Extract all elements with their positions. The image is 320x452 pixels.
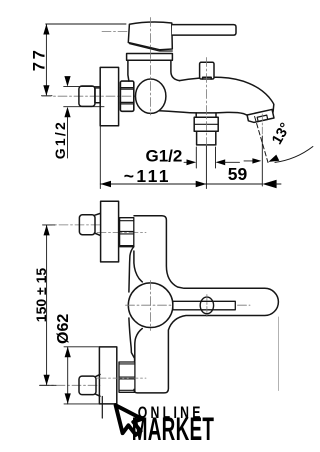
node top axis tick [43,224,56,226]
eccentric top connector [79,215,95,235]
shower outlet nut [194,117,218,131]
aerator assembly [247,109,274,123]
dimension line ~111 [100,183,206,185]
wire eccentric bottom extension [64,106,104,108]
node nut top facets [120,221,134,246]
node neck upper inner [134,251,142,282]
spout bottom edge left [155,111,196,113]
wire flange drop line [101,397,103,419]
lever stem front [173,301,235,310]
node neck lower outline [129,318,135,362]
dimension G1/2 leader arrow left [184,161,189,163]
svg-text:59: 59 [228,164,248,184]
dimension dia62 line [67,347,69,404]
svg-text:G1/2: G1/2 [52,120,68,159]
svg-text:G1/2: G1/2 [146,147,183,166]
wall flange top [101,201,119,262]
spout top edge [180,77,274,104]
wire G1/2 leader [67,117,69,158]
hex nut top [120,218,134,247]
node stem screw ellipse [200,297,213,314]
wire lever axis centerline [102,31,127,33]
wire bottom axis centerline [40,384,100,386]
wire body axis bottom [97,377,146,379]
dimension 150 up arrow [44,225,50,236]
node ecc bottom 3d edge [96,374,100,396]
wall flange [100,67,118,125]
svg-text:Ø62: Ø62 [55,314,72,344]
wire thread extension left [195,147,197,168]
wire aerator centerline [261,114,263,136]
node cap lip line [130,44,173,51]
dimension G1/2 up arrow [64,107,70,118]
wire cap centerline [149,18,151,116]
node cap collar [127,54,173,61]
cone step [95,88,100,103]
svg-text:13°: 13° [269,120,294,147]
eccentric connector left [79,86,95,106]
node nut facets [120,88,133,104]
wire aerator extension [261,136,263,186]
dimension line 59 [206,183,262,185]
shower outlet collar [196,113,216,117]
node ecc 3d edge [94,213,100,235]
hex nut bottom [119,362,135,392]
wire lever-top extension line [46,23,126,25]
cartridge cap [128,22,172,50]
dimension 77 up arrow [43,24,49,35]
cartridge circle dia62 [128,283,173,328]
dimension 77 down arrow [43,85,49,96]
wire body axis top [97,232,146,234]
node axis tick [42,95,53,97]
sphere body [136,79,166,113]
faucet body outline [128,60,180,81]
dimension dia62 down arrow [65,393,71,404]
dimension 13deg left arrow [244,160,253,162]
node knob base [203,77,212,79]
wire eccentric top extension [64,86,100,88]
wire screw centerline [206,295,208,317]
wire top axis centerline [43,224,100,226]
wire wall reference line [278,317,280,391]
wire main axis centerline [42,95,166,97]
dimension G1/2 arrow right [216,159,226,165]
dimension dia62 up arrow [65,347,71,358]
faucet body front [134,216,278,393]
wire flange top extension [64,346,99,348]
dimension 13deg right arrow [267,154,279,163]
node neck lower inner [135,329,143,362]
hex nut [120,81,133,111]
spout end face [272,104,274,116]
svg-text:77: 77 [31,47,49,71]
wire flange bottom extension [64,403,99,405]
spout bottom edge right [216,112,249,116]
wire thread extension right [215,147,217,168]
dimension 150 leader line [46,225,48,385]
dimension 77 leader line [45,24,47,96]
diverter knob [200,62,214,79]
node nut bottom facets [119,364,135,390]
dimension G1/2 down arrow [64,76,70,87]
svg-text:~111: ~111 [124,166,171,186]
wire circle crosshair horizontal [126,304,251,306]
wire circle crosshair vertical [150,281,152,331]
eccentric bottom connector [79,376,96,395]
lever handle bar [172,25,236,35]
wire 13deg arc [275,147,313,163]
shower outlet thread [197,131,216,145]
wire flange extension line [99,126,101,189]
svg-text:150 ± 15: 150 ± 15 [33,268,49,323]
wire 13deg dashed flow line [255,117,268,163]
node outlet nut midline [194,123,218,125]
logo cursor [116,400,146,438]
svg-text:MARKET: MARKET [132,411,215,448]
node neck upper outline [129,247,134,292]
wall flange bottom [99,347,116,404]
wire knob-outlet centerline [205,58,207,147]
dimension 150 down arrow [44,375,50,386]
wire outlet center extension [205,146,207,189]
node bottom axis tick [40,384,57,386]
